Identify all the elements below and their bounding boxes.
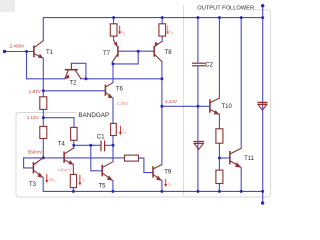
svg-text:1.87V: 1.87V [29,89,42,94]
svg-text:1.12V: 1.12V [27,115,40,120]
svg-text:T9: T9 [164,169,172,175]
svg-text:BANDGAP: BANDGAP [78,112,109,119]
svg-text:T11: T11 [244,156,255,162]
svg-text:1: 1 [123,31,125,35]
svg-text:3: 3 [169,183,171,187]
svg-text:T10: T10 [222,104,233,110]
svg-text:OUTPUT FOLLOWER: OUTPUT FOLLOWER [197,5,254,11]
svg-text:T5: T5 [99,184,107,190]
svg-text:1.28V: 1.28V [117,101,130,106]
svg-text:T7: T7 [103,51,111,57]
svg-text:C1: C1 [97,135,105,141]
svg-text:7: 7 [84,179,86,183]
svg-text:T6: T6 [116,87,124,93]
svg-text:T8: T8 [165,50,173,56]
svg-text:T4: T4 [58,142,66,148]
svg-text:1: 1 [54,179,56,183]
svg-text:1.24V: 1.24V [165,99,178,104]
svg-text:+48mV: +48mV [57,167,73,172]
svg-text:2: 2 [171,31,173,35]
svg-text:C2: C2 [205,63,213,69]
svg-text:2.495V: 2.495V [10,43,25,48]
svg-text:3I: 3I [49,177,53,182]
svg-text:550mV: 550mV [28,150,43,155]
svg-text:T1: T1 [46,50,54,56]
svg-text:2: 2 [124,131,126,135]
svg-text:T2: T2 [69,81,77,87]
svg-text:T3: T3 [29,182,37,188]
